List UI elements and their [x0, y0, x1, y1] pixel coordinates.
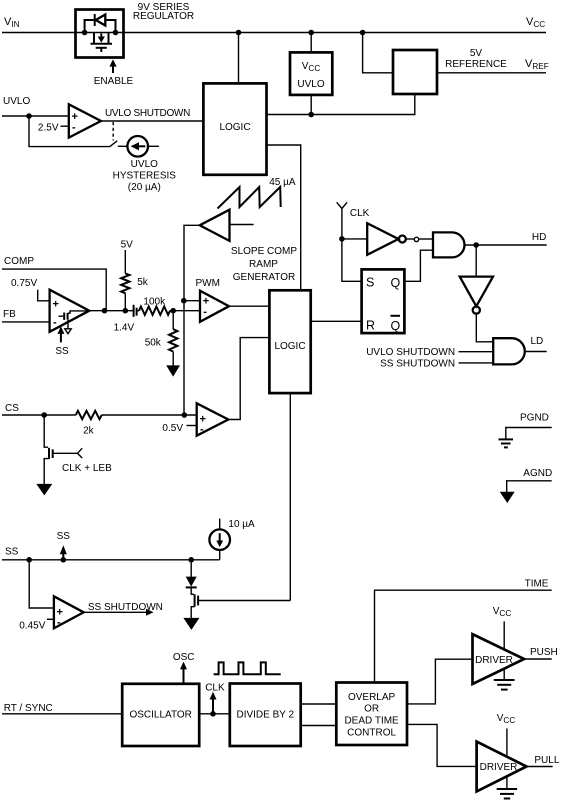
node SS label: [5, 547, 19, 558]
node RT / SYNC label: [4, 703, 53, 714]
label 45 uA: [269, 177, 296, 188]
waveform clock pulses: [214, 662, 281, 674]
wire slope ramp down to PWM and CS comparators: [184, 225, 200, 415]
svg-text:R: R: [366, 319, 375, 333]
wire UVLO hysteresis branch: [29, 116, 110, 147]
block VCC UVLO: [290, 52, 332, 95]
svg-text:PUSH: PUSH: [530, 647, 558, 658]
block U18 OVERLAP OR DEAD TIME CONTROL: [336, 683, 407, 746]
svg-text:DEAD TIME: DEAD TIME: [344, 716, 399, 727]
svg-text:RT / SYNC: RT / SYNC: [4, 703, 53, 714]
transistor Q1 pass FET inside regulator: [91, 33, 113, 53]
svg-text:UVLO SHUTDOWN: UVLO SHUTDOWN: [105, 108, 190, 119]
svg-text:OSC: OSC: [173, 652, 195, 663]
junction COMP node: [102, 308, 108, 314]
svg-text:REFERENCE: REFERENCE: [445, 59, 507, 70]
svg-text:100k: 100k: [143, 297, 166, 308]
diode D2 SS discharge: [186, 560, 197, 595]
svg-text:COMP: COMP: [4, 256, 34, 267]
node HD label: [532, 232, 546, 243]
wire COMP input line: [2, 269, 106, 311]
svg-text:-: -: [53, 317, 57, 329]
wire PWM plus input: [184, 300, 200, 302]
transistor Q2 SS clamp inside error amp: [59, 311, 89, 334]
svg-text:CLK: CLK: [205, 683, 225, 694]
wire 5k to node: [124, 293, 126, 311]
wire 0.75V to non-inverting input: [38, 290, 50, 301]
op-amp U7 PWM comparator: [196, 278, 230, 322]
block U8 LOGIC lower: [269, 290, 310, 393]
svg-text:2.5V: 2.5V: [38, 123, 59, 134]
wire rail down to VCC UVLO box: [310, 33, 312, 53]
op-amp U6 error amplifier: [50, 290, 90, 332]
svg-text:OR: OR: [364, 704, 379, 715]
svg-text:RAMP: RAMP: [249, 259, 278, 270]
svg-text:DIVIDE BY 2: DIVIDE BY 2: [236, 710, 294, 721]
svg-text:CLK + LEB: CLK + LEB: [62, 463, 112, 474]
node PUSH label: [530, 647, 558, 658]
switch hysteresis contact: [110, 141, 118, 147]
label UVLO SHUTDOWN: [105, 108, 190, 119]
label CLK + LEB: [62, 463, 112, 474]
svg-text:2k: 2k: [83, 426, 95, 437]
node AGND: [500, 468, 553, 503]
battery B1 1.4V level shift: [114, 305, 139, 334]
svg-text:UVLO SHUTDOWN: UVLO SHUTDOWN: [366, 347, 455, 358]
ENABLE arrow into regulator: [94, 59, 134, 87]
svg-text:UVLO: UVLO: [297, 79, 324, 90]
wire error amp output node line: [89, 310, 133, 312]
resistor R4 2k: [76, 411, 102, 437]
node PULL label: [534, 755, 559, 766]
node VCC label pull driver: [497, 713, 516, 725]
junction HD node: [473, 242, 479, 248]
wire VIN rail: [2, 32, 546, 34]
svg-text:SS: SS: [5, 547, 19, 558]
resistor R1 5k: [121, 273, 149, 293]
wire dashed link to hysteresis switch: [112, 122, 114, 141]
svg-text:SS SHUTDOWN: SS SHUTDOWN: [88, 602, 163, 613]
wire overlap to pull driver: [407, 724, 477, 766]
svg-text:5V: 5V: [470, 48, 483, 59]
wire node to 50k: [172, 311, 174, 330]
op-amp U5 slope comp buffer: [200, 210, 254, 241]
node VCC label push driver: [493, 606, 512, 618]
junction VIN rail to LOGIC: [236, 30, 242, 36]
wire divider to overlap control lower: [301, 725, 337, 727]
wire SS internal signal arrow: [57, 531, 71, 560]
ground arrow below SS FET: [183, 618, 199, 630]
wire PWM output to LOGIC: [229, 305, 269, 307]
wire inverter to LD AND gate: [476, 314, 493, 342]
resistor R3 50k: [145, 329, 178, 351]
svg-text:Q: Q: [391, 319, 401, 333]
current source I2 10uA soft start: [209, 519, 255, 560]
junction CLK tap: [210, 711, 216, 717]
junction CS node: [41, 412, 47, 418]
wire divider to overlap control upper: [301, 703, 337, 705]
wire VCC stub pull driver: [506, 729, 508, 758]
wire FB input line: [2, 321, 50, 323]
svg-text:SS: SS: [55, 346, 69, 357]
junction slope ramp to PWM plus input: [181, 298, 187, 304]
wire SS arrow into error amp: [55, 326, 69, 357]
svg-text:SS: SS: [57, 531, 71, 542]
svg-text:CONTROL: CONTROL: [347, 728, 396, 739]
svg-text:LOGIC: LOGIC: [274, 341, 305, 352]
wire CLK down to latch S input: [342, 239, 362, 281]
wire overlap to push driver: [407, 659, 473, 704]
svg-text:DRIVER: DRIVER: [475, 655, 513, 666]
svg-text:GENERATOR: GENERATOR: [233, 272, 295, 283]
svg-text:ENABLE: ENABLE: [94, 76, 134, 87]
wire CS comparator output to LOGIC: [228, 338, 269, 420]
op-amp U14 CS comparator 0.5V: [162, 403, 228, 435]
node FB label: [3, 309, 16, 320]
label SS SHUTDOWN input to LD gate: [380, 359, 493, 370]
wire inverter to AND with spur bubble: [406, 237, 433, 241]
junction ramp to CS comparator input: [182, 412, 188, 418]
svg-text:5V: 5V: [121, 240, 134, 251]
svg-text:-: -: [57, 617, 61, 629]
node VIN label: [4, 16, 20, 29]
junction on VIN rail left of pass FET: [82, 30, 88, 36]
wire 100k to PWM inverting input: [170, 310, 200, 312]
ground push driver: [494, 669, 515, 690]
label 0.75V: [11, 278, 37, 289]
gate U13 AND gate LD: [493, 338, 525, 364]
label SLOPE COMP RAMP GENERATOR: [231, 246, 297, 283]
gate U10 AND gate HD: [433, 232, 465, 257]
svg-text:Q: Q: [391, 276, 401, 290]
waveform sawtooth ramp: [218, 187, 281, 209]
svg-text:PGND: PGND: [520, 413, 549, 424]
label UVLO HYSTERESIS (20 uA): [113, 159, 177, 193]
wire PUSH output: [524, 658, 552, 660]
resistor R2 100k: [139, 297, 170, 315]
junction 50k node: [170, 308, 176, 314]
wire 2k to CS comparator: [102, 414, 197, 416]
wire VCC UVLO bottom stub: [310, 95, 312, 115]
junction VIN rail to 5V reference: [360, 30, 366, 36]
wire 5V to 5k resistor: [124, 250, 126, 273]
svg-text:5k: 5k: [137, 277, 149, 288]
current source I1 UVLO hysteresis 20uA: [118, 136, 159, 157]
junction UVLO input: [26, 113, 32, 119]
wire LOGIC bottom to SS FET gate: [289, 393, 291, 600]
svg-text:FB: FB: [3, 309, 16, 320]
node PGND: [499, 413, 552, 448]
wire CLK to inverter: [342, 238, 367, 240]
wire PULL output: [527, 766, 553, 768]
wire LOGIC to latch R input: [311, 320, 362, 322]
wire oscillator to divider: [199, 713, 230, 715]
svg-text:UVLO: UVLO: [3, 96, 30, 107]
svg-text:TIME: TIME: [525, 579, 549, 590]
transistor Q3 CS blanking FET: [44, 415, 82, 485]
block U2 5V reference: [393, 50, 437, 94]
svg-text:PULL: PULL: [534, 755, 559, 766]
svg-text:LOGIC: LOGIC: [219, 122, 250, 133]
wire RT/SYNC input line: [2, 713, 122, 715]
svg-text:UVLO: UVLO: [131, 159, 158, 170]
latch U11 SR flip-flop: [362, 269, 405, 333]
junction 5k node: [123, 308, 129, 314]
op-amp U15 SS shutdown comparator 0.45V: [19, 560, 83, 632]
wire SS SHUTDOWN output arrow: [84, 602, 163, 616]
wire LD output line: [525, 351, 547, 353]
amplifier U19 PUSH driver: [473, 634, 525, 684]
svg-text:45 µA: 45 µA: [269, 177, 296, 188]
wire CS input line: [2, 414, 76, 416]
transistor Q4 SS discharge FET: [191, 594, 290, 618]
wire rail down to LOGIC top: [238, 33, 240, 84]
svg-text:S: S: [366, 276, 374, 290]
wire HD output line: [465, 244, 547, 246]
inverter U9 clock inverter: [367, 223, 406, 255]
node CS label: [5, 403, 19, 414]
svg-text:1.4V: 1.4V: [114, 323, 135, 334]
svg-text:+: +: [53, 299, 59, 311]
block U17 DIVIDE BY 2: [230, 684, 301, 747]
label UVLO SHUTDOWN input to LD gate: [366, 347, 493, 358]
wire 5V ref bottom to logic line: [267, 94, 415, 115]
svg-text:HD: HD: [532, 232, 546, 243]
node VREF label: [525, 58, 549, 71]
junction on LOGIC feedback line: [308, 112, 314, 118]
svg-text:(20 µA): (20 µA): [128, 182, 161, 193]
wire Q to AND gate: [404, 250, 432, 281]
wire UVLO input line: [2, 115, 69, 117]
wire LOGIC to slope generator line down: [267, 145, 301, 290]
diode D1 body diode inside regulator: [85, 14, 116, 33]
wire SS input line: [2, 559, 220, 561]
wire UVLO comparator output to LOGIC: [101, 120, 203, 122]
ground pull driver: [497, 776, 517, 799]
ground arrow below 50k: [166, 352, 180, 377]
junction on VIN rail right of pass FET: [113, 30, 119, 36]
label 5V REFERENCE: [445, 48, 507, 70]
junction SS internal arrow: [61, 557, 67, 563]
svg-text:-: -: [200, 424, 204, 436]
junction SS discharge branch: [188, 557, 194, 563]
block U3 LOGIC upper: [203, 83, 266, 174]
wire rail down into 5V reference box: [363, 33, 393, 73]
label 5V pullup: [121, 240, 134, 251]
svg-text:10 µA: 10 µA: [228, 519, 255, 530]
svg-text:-: -: [203, 306, 207, 318]
svg-text:PWM: PWM: [196, 278, 220, 289]
svg-text:0.45V: 0.45V: [19, 621, 45, 632]
wire TIME line to overlap box: [375, 590, 552, 682]
node TIME label: [525, 579, 549, 590]
junction CLK node: [339, 236, 345, 242]
svg-text:CS: CS: [5, 403, 19, 414]
svg-text:OVERLAP: OVERLAP: [348, 692, 396, 703]
svg-text:CLK: CLK: [350, 208, 370, 219]
node VCC label: [526, 16, 545, 29]
wire VCC stub push driver: [503, 621, 505, 650]
svg-text:OSCILLATOR: OSCILLATOR: [129, 710, 191, 721]
svg-text:AGND: AGND: [523, 468, 552, 479]
inverter U12 cross-conduction inverter: [460, 277, 493, 314]
svg-text:REGULATOR: REGULATOR: [133, 11, 194, 22]
node UVLO label: [3, 96, 30, 107]
junction SS shutdown branch: [26, 557, 32, 563]
OSC output arrow: [173, 652, 195, 684]
node CLK antenna input: [337, 202, 370, 239]
wire HD node down to inverter: [475, 245, 477, 277]
wire VREF output line: [437, 72, 546, 74]
svg-text:0.75V: 0.75V: [11, 278, 37, 289]
junction VIN rail to VCC UVLO: [308, 30, 314, 36]
CLK up arrow: [205, 683, 225, 714]
op-amp U4 UVLO comparator 2.5V: [38, 104, 101, 137]
svg-text:DRIVER: DRIVER: [480, 762, 518, 773]
svg-text:50k: 50k: [145, 338, 162, 349]
ground arrow below CS FET: [36, 484, 52, 496]
svg-text:HYSTERESIS: HYSTERESIS: [113, 171, 177, 182]
svg-text:LD: LD: [531, 336, 544, 347]
block U16 OSCILLATOR: [122, 684, 199, 746]
label 9V SERIES REGULATOR: [133, 2, 194, 22]
svg-text:0.5V: 0.5V: [162, 423, 183, 434]
svg-text:SLOPE COMP: SLOPE COMP: [231, 246, 297, 257]
node LD label: [531, 336, 544, 347]
node COMP label: [4, 256, 34, 267]
svg-text:-: -: [72, 122, 76, 134]
amplifier U20 PULL driver: [477, 742, 527, 792]
svg-text:SS SHUTDOWN: SS SHUTDOWN: [380, 359, 455, 370]
regulator U1 9V series regulator box: [76, 10, 124, 58]
